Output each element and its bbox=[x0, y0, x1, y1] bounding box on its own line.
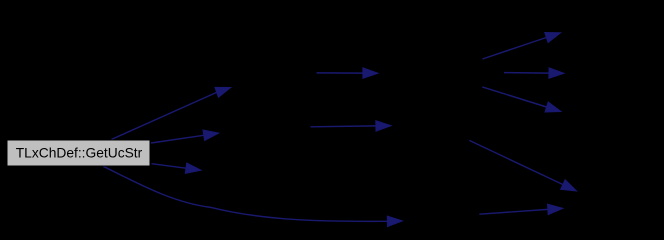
edge E bbox=[317, 68, 379, 79]
edge J bbox=[469, 140, 577, 191]
svg-text:TLxChDef::GetUcStr: TLxChDef::GetUcStr bbox=[16, 146, 143, 161]
edge A bbox=[112, 87, 231, 139]
edge H bbox=[504, 68, 564, 79]
edge D bbox=[103, 166, 402, 226]
edge G bbox=[483, 32, 562, 59]
edge K bbox=[479, 204, 563, 215]
edge C bbox=[152, 163, 202, 174]
edge B bbox=[151, 130, 219, 143]
edge I bbox=[482, 87, 561, 112]
node TLxChDef::GetUcStr bbox=[7, 140, 150, 166]
edge F bbox=[311, 121, 392, 132]
